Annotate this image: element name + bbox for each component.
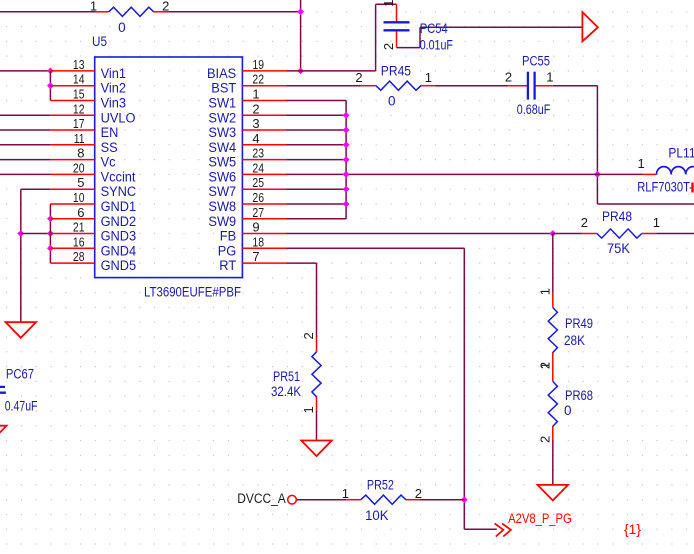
svg-text:28K: 28K	[564, 333, 585, 348]
svg-text:Vccint: Vccint	[101, 169, 136, 184]
svg-text:18: 18	[252, 234, 264, 249]
wire (SYNC to corner)	[21, 188, 51, 190]
svg-text:0.01uF: 0.01uF	[420, 38, 453, 53]
wire (SW node exit right)	[597, 203, 694, 205]
svg-text:2: 2	[301, 332, 316, 339]
node junction (boost rail / SW node)	[594, 171, 601, 178]
wire (SW7 to bus)	[287, 188, 347, 190]
svg-text:FB: FB	[220, 229, 236, 244]
pin 10 (GND1)	[50, 190, 136, 214]
pin 27 (SW9)	[208, 205, 286, 229]
svg-text:SS: SS	[101, 140, 118, 155]
node junction (FB divider tap)	[549, 230, 556, 237]
pin 21 (GND3)	[50, 220, 136, 244]
wire (PR68 to ground)	[552, 441, 554, 485]
svg-text:SW2: SW2	[208, 110, 236, 125]
pin 18 (PG)	[218, 234, 287, 258]
inductor PL11 (RLF7030T-1)	[637, 146, 694, 195]
pin 14 (Vin2)	[50, 72, 126, 96]
resistor PR68 (0)	[537, 362, 593, 443]
wire (SW2 to bus)	[287, 114, 347, 116]
wire (PR51 to ground)	[316, 411, 318, 441]
svg-text:Vin3: Vin3	[101, 96, 126, 111]
pin 23 (SW5)	[208, 146, 286, 170]
wire (left input row 11)	[0, 173, 50, 175]
svg-text:BST: BST	[211, 81, 236, 96]
wire (SW6 to bus)	[287, 173, 347, 175]
wire (SW4 to bus)	[287, 144, 347, 146]
svg-text:2: 2	[162, 0, 169, 13]
svg-text:7: 7	[252, 249, 259, 264]
svg-text:2: 2	[381, 43, 396, 50]
svg-text:25: 25	[252, 175, 264, 190]
wire (PR45 to PC55)	[435, 85, 509, 87]
svg-text:1: 1	[653, 215, 660, 230]
wire (left input row 7)	[0, 114, 50, 116]
pin 20 (Vccint)	[50, 160, 135, 184]
svg-text:{1}: {1}	[624, 522, 641, 537]
svg-text:0: 0	[388, 94, 396, 109]
capacitor PC67 (0.47uF)	[0, 367, 38, 426]
node junction (SW bus row 3)	[343, 127, 350, 134]
svg-text:1: 1	[637, 156, 644, 171]
pin 5 (SYNC)	[50, 175, 136, 199]
svg-text:SW5: SW5	[208, 155, 236, 170]
svg-text:1: 1	[381, 0, 396, 7]
node junction (Vin1)	[47, 68, 54, 75]
svg-text:16: 16	[73, 234, 85, 249]
pin 9 (FB)	[220, 220, 287, 244]
resistor PR52 (10K)	[342, 477, 422, 523]
svg-text:1: 1	[342, 486, 349, 501]
wire (PR52 to junction)	[420, 499, 464, 501]
svg-text:PC67: PC67	[6, 367, 34, 382]
net arrow A2V8_P_PG	[495, 511, 572, 537]
svg-text:SYNC: SYNC	[101, 184, 137, 199]
svg-text:10: 10	[73, 190, 85, 205]
svg-text:21: 21	[73, 220, 85, 235]
node junction (SW bus row 4)	[343, 141, 350, 148]
svg-text:RT: RT	[219, 258, 236, 273]
svg-text:GND3: GND3	[101, 229, 137, 244]
svg-text:SW6: SW6	[208, 169, 236, 184]
node junction (GND3 / GND bus)	[47, 230, 54, 237]
wire (PG horizontal)	[287, 247, 465, 249]
wire (SW3 to bus)	[287, 129, 347, 131]
svg-text:A2V8_P_PG: A2V8_P_PG	[508, 511, 572, 526]
node junction (PG / PR52)	[461, 496, 468, 503]
wire (tap down to PR49)	[552, 234, 554, 293]
wire (SW8 to bus)	[287, 203, 347, 205]
svg-text:SW8: SW8	[208, 199, 236, 214]
resistor PR51 (32.4K)	[271, 332, 321, 413]
pin 3 (SW3)	[208, 116, 286, 140]
wire (BST to PR45)	[287, 85, 361, 87]
pin 16 (GND4)	[50, 234, 136, 258]
svg-text:0: 0	[564, 403, 572, 418]
svg-text:1: 1	[546, 70, 553, 85]
svg-text:26: 26	[252, 190, 264, 205]
svg-text:Vin1: Vin1	[101, 66, 126, 81]
svg-text:2: 2	[537, 436, 552, 443]
wire (PC55 to corner)	[553, 85, 598, 87]
svg-text:27: 27	[252, 205, 264, 220]
wire (0-ohm resistor to junction)	[169, 11, 301, 13]
wire (vertical BST/boost rail)	[596, 86, 598, 204]
IC U5 body (LT3690EUFE#PBF)	[95, 57, 243, 278]
wire (junction to PR48)	[553, 233, 582, 235]
svg-text:PR45: PR45	[381, 64, 411, 79]
pin 2 (SW2)	[208, 101, 286, 125]
node junction (top wire / vertical)	[297, 8, 304, 15]
wire (SW1 to bus)	[287, 100, 347, 102]
wire (vertical from top edge to BIAS net)	[300, 0, 302, 71]
pin 19 (BIAS)	[207, 57, 287, 81]
svg-text:14: 14	[73, 72, 85, 87]
svg-text:22: 22	[252, 72, 264, 87]
pin 17 (EN)	[50, 116, 118, 140]
wire (Vin bus vertical)	[49, 71, 51, 101]
svg-text:SW1: SW1	[208, 96, 236, 111]
svg-text:GND1: GND1	[101, 199, 137, 214]
wire (SW9 to bus)	[287, 218, 347, 220]
svg-text:UVLO: UVLO	[101, 110, 136, 125]
wire (SW bus vertical)	[345, 101, 347, 219]
resistor PR49 (28K)	[537, 288, 593, 369]
wire (PR48 exit right)	[656, 233, 694, 235]
pin 11 (SS)	[50, 131, 117, 155]
capacitor PC54 (0.01uF)	[381, 0, 453, 53]
svg-text:PC55: PC55	[522, 53, 550, 68]
svg-text:PR68: PR68	[565, 388, 593, 403]
red mark (clipped text)	[691, 183, 693, 193]
wire (BIAS to PC54 riser)	[287, 70, 376, 72]
svg-text:DVCC_A: DVCC_A	[237, 491, 286, 506]
svg-text:13: 13	[73, 57, 85, 72]
svg-text:15: 15	[73, 87, 85, 102]
ground (PC67)	[0, 426, 7, 442]
svg-text:RLF7030T-1: RLF7030T-1	[637, 180, 694, 195]
svg-text:SW3: SW3	[208, 125, 236, 140]
svg-text:GND4: GND4	[101, 243, 137, 258]
pin 22 (BST)	[211, 72, 286, 96]
svg-text:SW9: SW9	[208, 214, 236, 229]
svg-text:1: 1	[90, 0, 97, 13]
off-page connector (right arrow)	[582, 12, 598, 41]
svg-text:1: 1	[537, 288, 552, 295]
pin 6 (GND2)	[50, 205, 136, 229]
wire (PG vertical)	[463, 248, 465, 529]
wire (left input row 8)	[0, 129, 50, 131]
ground (RT/PR51)	[301, 441, 331, 457]
svg-text:12: 12	[73, 101, 85, 116]
svg-text:Vin2: Vin2	[101, 81, 126, 96]
pin 1 (SW1)	[208, 87, 286, 111]
svg-text:U5: U5	[92, 34, 107, 49]
svg-text:10K: 10K	[365, 508, 388, 523]
node junction (Vin2)	[47, 82, 54, 89]
capacitor PC55 (0.68uF)	[505, 53, 554, 117]
svg-text:2: 2	[415, 486, 422, 501]
pin 26 (SW8)	[208, 190, 286, 214]
wire (SW5 to bus)	[287, 159, 347, 161]
svg-text:GND2: GND2	[101, 214, 137, 229]
pin 15 (Vin3)	[50, 87, 126, 111]
pin 8 (Vc)	[50, 146, 115, 170]
wire (left input row 9)	[0, 144, 50, 146]
svg-text:PR49: PR49	[565, 316, 593, 331]
ground (FB divider)	[538, 485, 568, 501]
pin 4 (SW4)	[208, 131, 286, 155]
svg-text:PL11: PL11	[668, 146, 694, 161]
svg-text:PG: PG	[218, 243, 237, 258]
svg-text:3: 3	[252, 116, 259, 131]
wire (GND bus vertical)	[49, 204, 51, 263]
wire (to off-page connector)	[420, 26, 582, 28]
pin 13 (Vin1)	[50, 57, 126, 81]
resistor PR45 (0)	[355, 64, 434, 109]
svg-text:SW7: SW7	[208, 184, 236, 199]
net port DVCC_A	[237, 491, 296, 506]
wire (RT horizontal)	[287, 262, 317, 264]
svg-text:23: 23	[252, 146, 264, 161]
pin 28 (GND5)	[50, 249, 136, 273]
svg-text:32.4K: 32.4K	[271, 384, 301, 399]
svg-text:0.68uF: 0.68uF	[517, 102, 551, 117]
svg-text:PR51: PR51	[273, 369, 300, 384]
svg-text:1: 1	[425, 70, 432, 85]
svg-text:6: 6	[77, 205, 84, 220]
svg-text:75K: 75K	[607, 241, 630, 256]
resistor (0 ohm, top left)	[90, 0, 170, 35]
node junction (GND2)	[47, 215, 54, 222]
pin 7 (RT)	[219, 249, 286, 273]
node junction (SW bus row 5)	[343, 156, 350, 163]
wire (left input row 10)	[0, 159, 50, 161]
node junction (SW bus / inductor net)	[343, 171, 350, 178]
svg-text:2: 2	[252, 101, 259, 116]
wire (RT vertical to PR51)	[316, 263, 318, 337]
svg-text:PR48: PR48	[602, 209, 632, 224]
ground (IC GND pins)	[6, 322, 36, 338]
wire (FB to junction)	[287, 233, 553, 235]
pin 25 (SW7)	[208, 175, 286, 199]
svg-text:8: 8	[77, 146, 84, 161]
svg-text:GND5: GND5	[101, 258, 137, 273]
node junction (GND4)	[47, 245, 54, 252]
wire (GND3 to rail)	[21, 233, 51, 235]
resistor PR48 (75K)	[581, 209, 660, 256]
svg-text:PC54: PC54	[420, 21, 448, 36]
svg-text:EN: EN	[101, 125, 119, 140]
wire (PC54 pin 2 to corner)	[397, 47, 421, 49]
svg-text:LT3690EUFE#PBF: LT3690EUFE#PBF	[144, 285, 241, 300]
svg-text:11: 11	[74, 131, 85, 146]
wire (SW node to inductor PL11)	[346, 173, 642, 175]
wire (SYNC/GND vertical)	[20, 189, 22, 322]
svg-text:SW4: SW4	[208, 140, 236, 155]
svg-text:28: 28	[73, 249, 85, 264]
svg-text:1: 1	[537, 362, 552, 369]
node junction (BIAS net)	[297, 68, 304, 75]
wire (Vin1 input)	[0, 70, 50, 72]
svg-text:24: 24	[252, 160, 264, 175]
svg-text:20: 20	[73, 160, 85, 175]
wire (PG to net arrow)	[464, 528, 497, 530]
svg-text:Vc: Vc	[101, 155, 116, 170]
svg-text:9: 9	[252, 220, 259, 235]
svg-text:BIAS: BIAS	[207, 66, 236, 81]
svg-text:0.47uF: 0.47uF	[5, 398, 38, 413]
svg-text:2: 2	[355, 70, 362, 85]
wire (net to 0-ohm resistor, top left)	[0, 11, 96, 13]
svg-text:19: 19	[252, 57, 264, 72]
node junction (SW bus row 8)	[343, 201, 350, 208]
node junction (SW bus row 6)	[343, 171, 350, 178]
node junction (SW bus row 7)	[343, 186, 350, 193]
node junction (GND3 / SYNC rail)	[17, 230, 24, 237]
pin 12 (UVLO)	[50, 101, 135, 125]
svg-text:5: 5	[77, 175, 84, 190]
wire (riser to PC54)	[375, 4, 377, 71]
pin 24 (SW6)	[208, 160, 286, 184]
svg-text:2: 2	[581, 215, 588, 230]
svg-text:1: 1	[301, 406, 316, 413]
svg-text:2: 2	[505, 70, 512, 85]
wire (to PC54 pin 1)	[376, 3, 397, 5]
svg-text:0: 0	[118, 20, 126, 35]
node junction (SW bus row 2)	[343, 112, 350, 119]
wire (corner up)	[419, 27, 421, 47]
svg-text:17: 17	[73, 116, 85, 131]
svg-text:1: 1	[252, 87, 259, 102]
svg-text:4: 4	[252, 131, 259, 146]
svg-text:PR52: PR52	[367, 477, 394, 492]
wire (DVCC_A to PR52)	[296, 499, 346, 501]
